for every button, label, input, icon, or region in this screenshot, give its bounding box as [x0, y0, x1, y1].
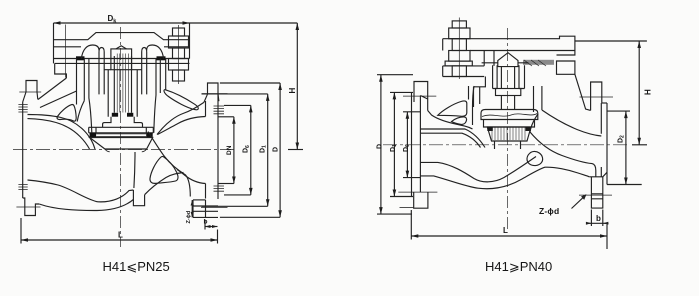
disc hub [103, 117, 143, 128]
left web diagonal lower [40, 91, 77, 108]
stem seal black right [127, 113, 133, 117]
boss to cap links [104, 69, 142, 71]
svg-text:Dk: Dk [108, 14, 118, 25]
dimension D1 (left valve) [202, 94, 270, 206]
vertical centerline of left valve [120, 27, 122, 247]
disc guide cap peak [116, 46, 126, 49]
piston cap wavy line [482, 114, 537, 117]
svg-text:H41⩽PN25: H41⩽PN25 [103, 259, 170, 274]
bonnet bolt stack (left valve) [169, 25, 189, 84]
svg-text:D6: D6 [243, 145, 251, 153]
left flange top bolt centerline (rv) [403, 95, 436, 97]
left flange top bolt centerline [19, 91, 41, 93]
bonnet arch right [147, 45, 164, 59]
right flange face vertical [217, 94, 219, 199]
svg-text:D1: D1 [390, 144, 398, 152]
dimension b (right valve) [586, 210, 609, 227]
right flange back vertical lower [205, 184, 207, 199]
left web small triangle opening (right valve) [452, 117, 467, 124]
piston cone (right valve) [498, 53, 518, 67]
hub bottom curve into bore (rv) [428, 111, 473, 130]
bonnet neck walls left [479, 87, 481, 104]
left flange face vertical [22, 102, 24, 198]
right flange top bolt centerline (rv) [580, 96, 614, 98]
bonnet gasket grey bar (right valve) [523, 60, 554, 65]
web rib vertical (rv) [468, 86, 470, 100]
disc guide tube [108, 70, 137, 117]
left flange face vertical (rv) [411, 93, 413, 196]
body neck inner wall left [89, 59, 92, 133]
right flange hub flare [204, 94, 219, 102]
svg-text:Z-ϕd: Z-ϕd [186, 211, 192, 224]
left flange bottom bolt centerline (rv) [398, 191, 437, 193]
right flange back vertical upper [205, 101, 207, 117]
seat bore below [495, 141, 521, 149]
seat ring black corner left [487, 127, 493, 131]
outlet bore top (rv) [542, 110, 601, 136]
svg-text:L: L [118, 231, 123, 240]
vertical centerline of right valve [507, 28, 509, 230]
left flange of left valve: top bolt tab [26, 81, 37, 93]
left flange back vertical (rv) [419, 96, 421, 193]
inlet bore top wall inner pair (rv) [420, 133, 480, 147]
bonnet neck walls right (rv) [534, 86, 542, 112]
piston cap plate [481, 110, 538, 120]
dimension D (left valve) [220, 83, 282, 217]
bowl right rise to outlet [145, 173, 184, 195]
horizontal pipe centerline of right valve [383, 144, 627, 146]
seat bore lips [105, 149, 147, 152]
body neck outer wall right [165, 59, 167, 91]
dimension D (right valve) [377, 75, 413, 214]
right flange break ticks upper [214, 106, 225, 114]
bonnet gasket black bar left [76, 56, 85, 60]
right flange of right valve: top bolt tab [591, 82, 602, 110]
outlet sweep lower wall (rv) [530, 132, 596, 177]
bonnet top outline [54, 33, 190, 40]
right web upper S-curve to flange hub [157, 102, 204, 134]
dimension D6 (left valve) [224, 105, 253, 194]
chamber sweep arc to outlet (left valve) [148, 132, 190, 197]
stem seal black left [112, 113, 118, 117]
seat ring vertical hatching [492, 127, 525, 140]
dimension L (left valve) [21, 218, 218, 244]
right flange bottom bolt centerline [201, 207, 228, 209]
bonnet well walls [493, 65, 525, 88]
inlet pipe outer bottom wall (rv) [420, 167, 589, 189]
inlet bore bottom wall (rv) [420, 157, 536, 182]
inlet bore top wall (rv) [420, 129, 485, 148]
bonnet neck left steps [474, 51, 495, 108]
dimension DN (left valve) [218, 117, 236, 184]
cover plate left edge [442, 39, 444, 51]
inlet bore top wall inner (left valve) [28, 115, 96, 150]
body neck inner wall right [154, 59, 156, 133]
left flange bottom bolt centerline [16, 206, 40, 208]
right flange face vertical (rv) [606, 103, 608, 185]
svg-text:D6: D6 [403, 144, 411, 152]
left flange break ticks top [18, 105, 27, 113]
right web triangle opening [150, 156, 178, 183]
right flange back vertical (rv) [600, 103, 602, 177]
svg-text:b: b [596, 214, 601, 223]
svg-text:DN: DN [226, 145, 233, 155]
body neck outer wall left [76, 59, 78, 105]
body neck mid wall right [159, 59, 161, 94]
seat gasket middle lines [96, 134, 146, 137]
svg-text:H: H [288, 88, 297, 94]
piston stem upper [501, 67, 514, 89]
bonnet flange mid line [54, 46, 190, 48]
left flange hub flare top [23, 92, 38, 102]
left flange break ticks bottom [18, 185, 27, 190]
svg-text:D: D [377, 144, 384, 149]
svg-text:H: H [644, 89, 653, 95]
bonnet hatch marks [524, 60, 546, 66]
bonnet neck wall left outer (rv) [473, 86, 475, 125]
dimension H (right valve) [575, 41, 647, 145]
right flange top bolt centerline [202, 93, 228, 95]
bonnet right edge [189, 34, 191, 59]
svg-text:D1: D1 [260, 145, 268, 153]
dimension Dk top line [54, 21, 298, 34]
svg-text:b: b [204, 219, 208, 226]
seat gasket black left [90, 133, 97, 138]
dimension D2 (right valve) [607, 111, 642, 184]
piston stem collar [496, 89, 521, 96]
left flange bottom tab base line (rv) [400, 207, 414, 209]
svg-text:D2: D2 [618, 135, 626, 143]
body neck shoulder below bonnet left [55, 63, 67, 78]
body neck mid wall left [83, 59, 85, 101]
right flange top edge (rv) [602, 102, 607, 104]
right flange bottom box [193, 200, 218, 218]
bonnet neck bore ledge [482, 62, 529, 64]
bowl outer wall (left valve) [39, 200, 133, 211]
inlet bore top wall outer (left valve) [28, 119, 90, 149]
left web big triangle opening (right valve) [438, 101, 467, 116]
svg-text:Z-ϕd: Z-ϕd [539, 206, 559, 216]
bonnet left bolt centerline [65, 25, 67, 78]
dimension D1 (right valve) [390, 92, 413, 196]
bonnet bolt stack (right valve) [445, 18, 472, 80]
right flange bottom edge (rv) [589, 172, 607, 177]
outlet bore top wall (left valve) [158, 117, 206, 135]
right web finger [164, 90, 198, 110]
seat ring black corner right [526, 127, 532, 131]
svg-text:H41⩾PN40: H41⩾PN40 [485, 259, 552, 274]
right flange break ticks lower [214, 186, 225, 191]
valve stem with thread hatching [114, 54, 131, 113]
piston stem lower [501, 96, 514, 110]
label Z-phi-d with leader (right valve) [539, 194, 587, 216]
Z-phi-d dimension line (left valve) [191, 200, 194, 217]
dimension H (left valve) vertical line at right [288, 23, 303, 150]
seat ring trapezoid [90, 138, 153, 150]
bonnet gasket line [54, 58, 190, 60]
chamber wall right of seat (rv) [530, 114, 538, 132]
right flange bottom bolt tab (rv) [591, 177, 602, 208]
bonnet boss column left [99, 48, 104, 95]
disc plate [89, 127, 154, 133]
piston disc mid band [484, 120, 535, 128]
right web teardrop (rv) [527, 151, 543, 165]
right flange of left valve: top bolt tab [208, 83, 219, 94]
left web diagonal upper [38, 78, 66, 100]
horizontal pipe centerline of left valve [13, 149, 234, 151]
left flange bottom bolt tab [23, 198, 40, 216]
cover plate right end step [557, 51, 575, 56]
seat bore channel riser [134, 152, 135, 188]
left web triangle opening [57, 105, 76, 122]
seat gasket black right [146, 133, 153, 138]
outlet bore bottom to flange [177, 170, 206, 184]
bowl bottom foot [133, 190, 144, 206]
left flange of right valve: top bolt tab [414, 82, 428, 111]
bonnet cover plate (right valve) [443, 36, 575, 50]
right flange bolt hole lines (rv) [591, 194, 602, 199]
left neck flare to bowl [77, 101, 84, 122]
left flange hub into body (rv) [420, 96, 427, 100]
dimension b (left valve) [205, 220, 218, 230]
dimension D6 (right valve) [403, 112, 420, 178]
bonnet arch left [81, 45, 99, 59]
bonnet boss column right [142, 48, 147, 95]
bonnet right step block [557, 61, 575, 74]
right flange bottom bolt centerline (rv) [579, 194, 612, 196]
bonnet gasket black bar right [157, 56, 166, 60]
svg-text:L: L [503, 226, 508, 235]
seat ring (right valve) [487, 127, 531, 141]
outlet upper wall (rv) [575, 74, 591, 110]
svg-text:D: D [273, 147, 280, 152]
bonnet left edge vertical [53, 23, 55, 63]
left flange bottom bolt tab (rv) [414, 192, 428, 208]
bonnet flange band (right valve) [443, 66, 485, 77]
bowl inner wall (left valve) [28, 180, 134, 202]
disc guide cap [111, 49, 132, 70]
bonnet bottom flange line [55, 62, 190, 64]
dimension L (right valve) [411, 210, 607, 249]
